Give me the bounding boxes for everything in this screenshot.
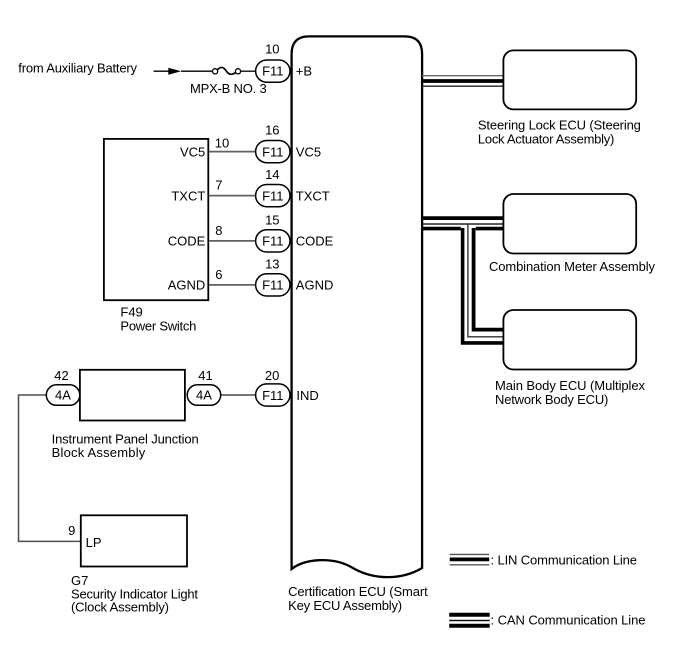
svg-text:16: 16 [265,122,279,137]
svg-text:: CAN Communication Line: : CAN Communication Line [491,612,646,627]
svg-text:VC5: VC5 [180,144,205,159]
svg-text:IND: IND [296,388,318,403]
wire CODE row [209,240,256,242]
wire VC5 row [209,151,256,153]
svg-text:F11: F11 [262,388,283,403]
svg-text:F49: F49 [120,304,142,319]
svg-text:42: 42 [54,368,68,383]
security indicator light G7 box [81,515,187,566]
combination meter assembly box [503,194,636,254]
legend LIN symbol: thin line lower [450,564,490,566]
svg-text:6: 6 [215,267,222,282]
connector F11 pin 15 (CODE) [256,230,290,252]
svg-text:Key ECU Assembly): Key ECU Assembly) [288,598,402,613]
svg-text:Power Switch: Power Switch [120,318,196,333]
svg-text:7: 7 [215,178,222,193]
connector F11 pin 14 (TXCT) [256,185,290,207]
fuse squiggle [217,67,235,74]
main body ECU box [503,310,636,370]
svg-text:TXCT: TXCT [171,188,205,203]
wire from 4A pin 42 to security light [19,395,81,541]
LIN bus thin line lower [422,85,504,87]
svg-text:CODE: CODE [296,234,334,249]
CAN bus horizontal bottom thick line (gap at branch) [422,227,461,231]
wire segment to arrow [154,70,170,72]
svg-text:F11: F11 [262,144,283,159]
legend CAN symbol: thin line [449,620,490,622]
certification ECU U1 (Smart Key ECU Assembly) outline [292,36,423,577]
svg-text:Lock Actuator Assembly): Lock Actuator Assembly) [478,131,614,146]
wire arrow to fuse [181,70,213,72]
LIN bus to steering lock ECU: thin line [422,75,504,77]
svg-text:AGND: AGND [168,278,206,293]
wire IND row: junction to F11 [220,394,256,396]
connector F11 pin 16 (VC5) [256,141,290,163]
fuse MPX-B NO. 3 : left circle [213,69,218,74]
instrument panel junction block box [80,370,185,421]
svg-text:4A: 4A [55,388,71,403]
legend CAN symbol: thick line [449,613,490,617]
legend LIN symbol: thick line [450,558,490,562]
svg-text:14: 14 [265,167,279,182]
svg-text:13: 13 [265,257,279,272]
svg-text:41: 41 [198,368,212,383]
svg-text:+B: +B [296,64,312,79]
wire fuse to F11 [241,70,256,72]
svg-text:15: 15 [265,213,279,228]
svg-text:Combination Meter Assembly: Combination Meter Assembly [489,259,656,274]
svg-text:LP: LP [86,535,102,550]
CAN branch: right thick L [474,228,505,330]
LIN bus thick line [422,79,504,83]
svg-text:F11: F11 [262,234,283,249]
svg-text:AGND: AGND [296,278,334,293]
legend LIN symbol: thin line [450,553,490,555]
svg-text:from Auxiliary Battery: from Auxiliary Battery [18,60,137,75]
svg-text:4A: 4A [196,388,212,403]
connector 4A pin 42 [46,385,80,406]
svg-text:Block Assembly: Block Assembly [52,445,146,460]
wire TXCT row [209,195,256,197]
connector F11 pin 20 (IND) [256,384,290,406]
svg-text:8: 8 [215,223,222,238]
svg-text:MPX-B NO. 3: MPX-B NO. 3 [190,81,267,96]
arrowhead [168,68,181,75]
svg-text:F11: F11 [262,64,283,79]
svg-text:CODE: CODE [168,234,206,249]
svg-text:F11: F11 [262,278,283,293]
CAN branch: thin L [468,224,505,337]
svg-text:: LIN Communication Line: : LIN Communication Line [491,552,638,567]
svg-text:F11: F11 [262,188,283,203]
svg-text:9: 9 [68,523,75,538]
svg-text:TXCT: TXCT [296,188,330,203]
svg-text:VC5: VC5 [296,144,321,159]
connector 4A pin 41 [187,385,221,406]
wire AGND row [209,284,256,286]
svg-text:Network Body ECU): Network Body ECU) [495,392,608,407]
CAN branch: left thick L to main body ECU [463,228,505,343]
steering lock ECU box [503,50,636,109]
CAN bus horizontal: top thick line [422,216,505,220]
svg-text:10: 10 [215,135,229,150]
svg-text:10: 10 [265,42,279,57]
svg-text:20: 20 [265,368,279,383]
svg-text:(Clock Assembly): (Clock Assembly) [71,600,169,615]
power switch F49 box [104,139,208,300]
legend CAN symbol: thick line lower [449,624,490,628]
CAN bus horizontal thin line [422,223,505,225]
fuse right circle [235,69,240,74]
connector F11 pin 10 (+B) [256,60,290,82]
connector F11 pin 13 (AGND) [256,274,290,296]
